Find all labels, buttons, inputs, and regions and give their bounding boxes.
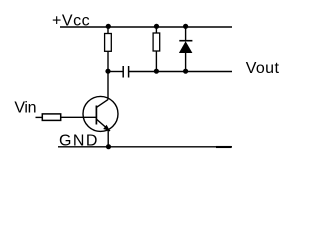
wire R3 to base <box>61 116 97 118</box>
wire Vout rail right segment <box>129 71 232 73</box>
wire Vout rail left segment <box>108 71 123 73</box>
capacitor C1 <box>123 66 128 78</box>
node junction top rail / R2 <box>154 24 159 29</box>
wire GND bottom rail (underlines GND) <box>58 146 232 148</box>
node junction Vout rail / R2 <box>154 69 159 74</box>
resistor R3 <box>42 114 60 121</box>
label +Vcc <box>52 12 90 29</box>
svg-text:Vin: Vin <box>14 100 36 117</box>
transistor Q1 <box>83 96 118 131</box>
wire emitter to GND rail <box>107 129 109 147</box>
label GND <box>59 133 99 150</box>
node junction Vout rail / D1 <box>183 69 188 74</box>
wire Vcc top rail (underlines Vcc) <box>60 26 232 28</box>
resistor R1 <box>105 27 112 72</box>
node junction top rail / R1 <box>106 24 111 29</box>
label Vin <box>14 100 36 117</box>
svg-text:Vout: Vout <box>246 60 280 77</box>
wire collector to Vout node <box>107 72 109 100</box>
label Vout <box>246 60 280 77</box>
node junction Vout rail / R1 / collector <box>105 69 110 74</box>
node junction top rail / D1 <box>183 24 188 29</box>
diode D1 <box>179 27 193 72</box>
wire Vin to R3 <box>36 116 43 118</box>
node junction GND rail / emitter <box>106 144 111 149</box>
resistor R2 <box>153 27 160 72</box>
